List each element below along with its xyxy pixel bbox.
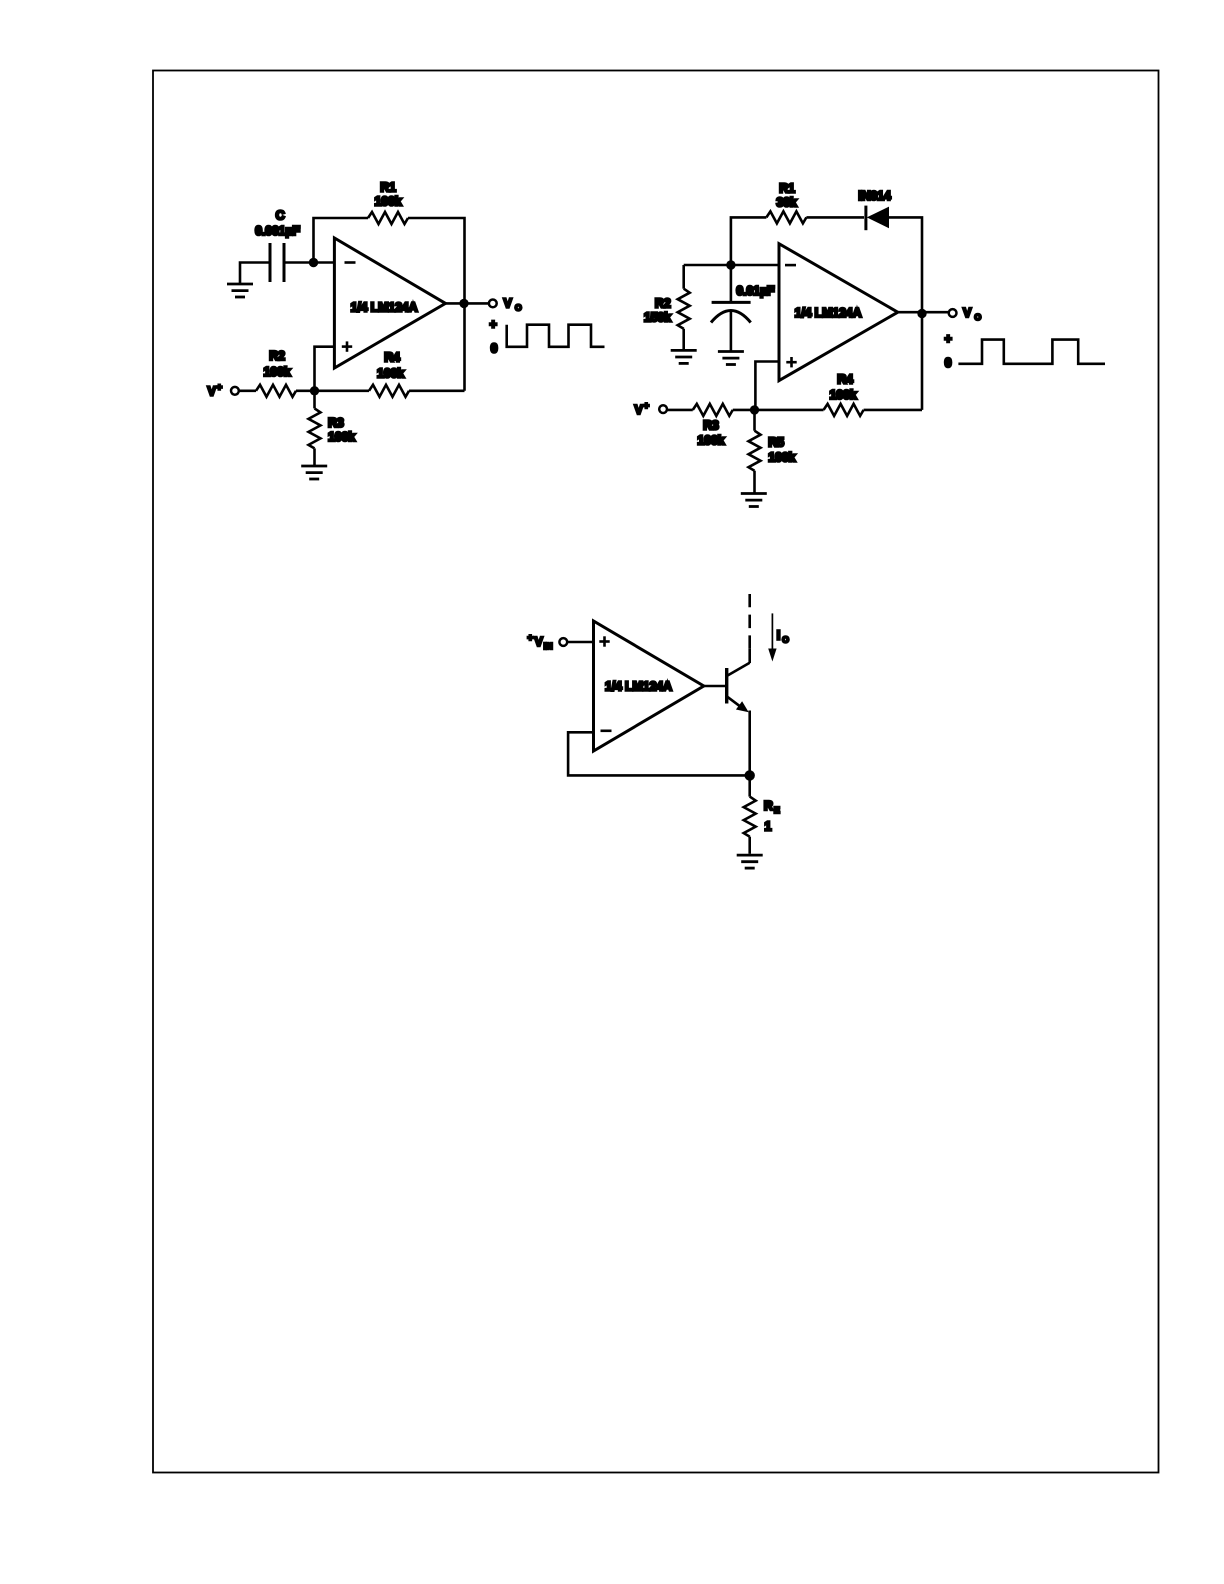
svg-text:1/4 LM124A: 1/4 LM124A <box>351 301 418 315</box>
svg-text:0.01µF: 0.01µF <box>736 284 775 298</box>
svg-text:1: 1 <box>765 820 772 834</box>
svg-text:C: C <box>276 209 285 223</box>
svg-text:0.001µF: 0.001µF <box>255 224 300 238</box>
svg-text:R2: R2 <box>655 297 671 311</box>
svg-text:V: V <box>208 385 217 399</box>
svg-text:1/4 LM124A: 1/4 LM124A <box>605 680 672 694</box>
svg-text:R3: R3 <box>328 416 344 430</box>
svg-text:+: + <box>944 332 951 346</box>
svg-text:150k: 150k <box>644 311 671 325</box>
svg-text:V: V <box>504 297 513 311</box>
svg-text:R: R <box>764 799 773 813</box>
svg-text:0: 0 <box>945 356 952 370</box>
svg-text:+: + <box>489 318 496 332</box>
svg-text:I: I <box>777 629 780 643</box>
svg-text:IN914: IN914 <box>858 189 891 203</box>
svg-text:+: + <box>644 401 650 412</box>
svg-text:E: E <box>774 805 780 815</box>
svg-text:0: 0 <box>491 342 498 356</box>
svg-text:100k: 100k <box>768 451 795 465</box>
svg-text:+: + <box>528 633 534 644</box>
svg-text:100k: 100k <box>697 434 724 448</box>
svg-text:V: V <box>535 635 544 649</box>
svg-text:100k: 100k <box>328 430 355 444</box>
svg-text:V: V <box>635 403 644 417</box>
svg-text:100k: 100k <box>374 195 401 209</box>
svg-text:100k: 100k <box>263 365 290 379</box>
svg-text:100k: 100k <box>377 367 404 381</box>
svg-text:V: V <box>963 306 972 320</box>
svg-text:O: O <box>782 635 789 645</box>
svg-text:R4: R4 <box>837 373 853 387</box>
svg-text:1/4 LM124A: 1/4 LM124A <box>795 306 862 320</box>
svg-text:R5: R5 <box>768 436 784 450</box>
svg-text:100k: 100k <box>829 388 856 402</box>
svg-text:+: + <box>217 382 223 393</box>
svg-text:R1: R1 <box>779 182 795 196</box>
svg-text:30k: 30k <box>776 196 797 210</box>
svg-text:R3: R3 <box>703 419 719 433</box>
svg-text:IN: IN <box>544 641 553 651</box>
svg-text:O: O <box>975 312 982 322</box>
svg-text:R2: R2 <box>269 349 285 363</box>
svg-text:R4: R4 <box>384 351 400 365</box>
svg-text:O: O <box>515 303 522 313</box>
svg-text:R1: R1 <box>380 181 396 195</box>
